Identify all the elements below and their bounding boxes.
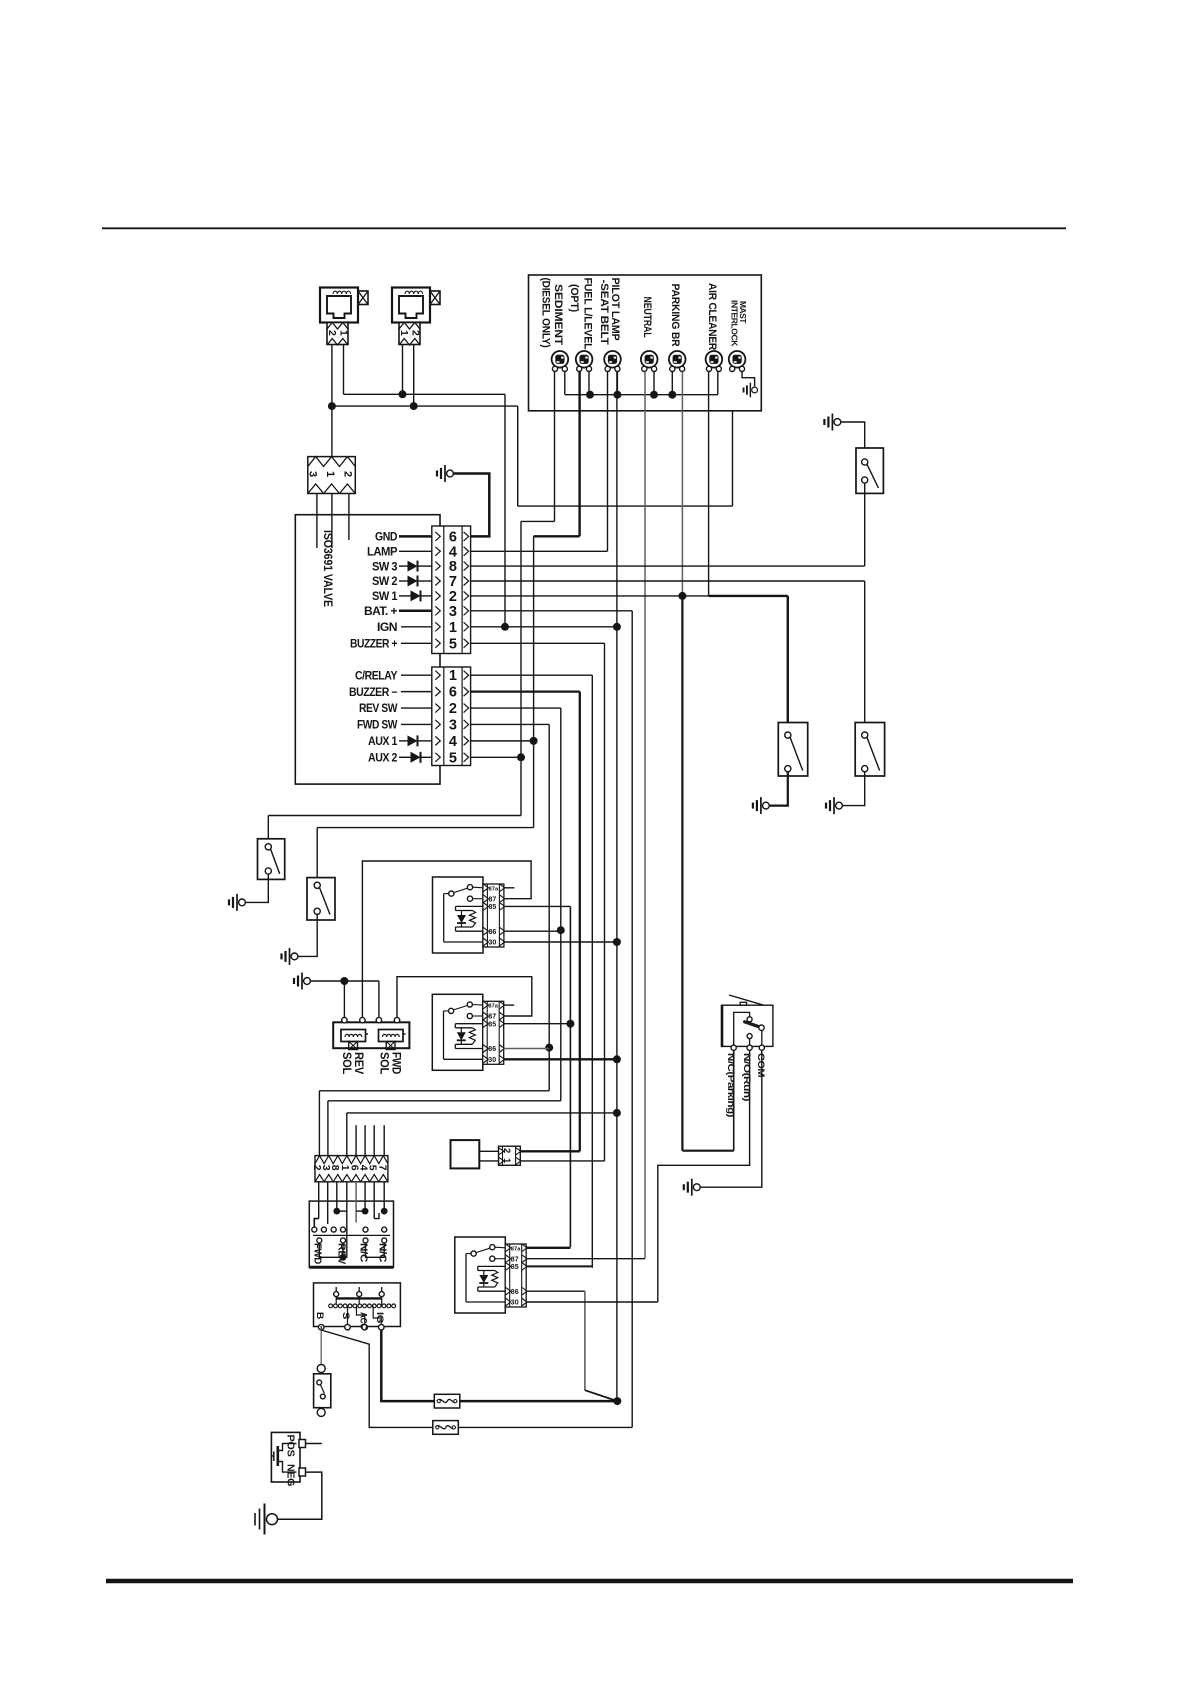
switch1 bottom wire to ground <box>246 874 269 903</box>
3-pin connector <box>308 457 356 494</box>
S drop <box>347 1306 349 1325</box>
svg-text:87a: 87a <box>489 886 499 892</box>
svg-text:REV: REV <box>336 1243 347 1265</box>
B wire down to fuse holder (gray) <box>320 1330 322 1365</box>
direction lever connector <box>315 1156 388 1182</box>
sensor wire AIR CLEANER down <box>708 372 710 597</box>
sensor bus stub PARKING left <box>671 372 673 395</box>
ground under switch2 <box>291 953 298 960</box>
svg-text:1: 1 <box>449 620 457 636</box>
sensor bus stub SEDIMENT right <box>564 372 566 395</box>
battery box <box>271 1432 300 1482</box>
wire solenoid B pin2 down <box>413 345 415 407</box>
mast interlock ground wire <box>742 372 755 387</box>
wire FWD SW to connector <box>401 723 432 725</box>
solenoid B 2-pin connector <box>399 323 420 345</box>
svg-text:SOL: SOL <box>340 1052 352 1074</box>
wire solenoid B pin1 down <box>402 345 404 395</box>
wire ground to switch top <box>841 422 865 448</box>
sensor switch box <box>529 275 762 411</box>
svg-text:85: 85 <box>488 1021 496 1028</box>
sensor connector PARKING BR <box>669 351 686 368</box>
svg-text:NEG: NEG <box>285 1464 297 1486</box>
relay1 85 wire down the 570 line <box>504 905 571 907</box>
wire C/RELAY down to relay3 85 <box>471 674 593 676</box>
wire fuse2 to BAT+ line <box>458 1426 632 1428</box>
wire BUZZER- down to buzzer (thick) <box>471 690 580 692</box>
sensor bus stub AIR CLEANER right <box>717 372 719 395</box>
fuse F1 <box>434 1394 460 1408</box>
ISO3691 valve controller box <box>295 515 440 784</box>
ground under left-bottom switch <box>763 802 770 809</box>
relay R1 connector strip <box>483 884 504 947</box>
svg-text:2: 2 <box>449 589 457 605</box>
FWD-REV loop <box>319 1243 343 1257</box>
relay1 87a stub <box>504 887 515 889</box>
battery NEG terminal <box>299 1468 306 1476</box>
wire solenoid A pin2 down to 3-pin connector <box>331 345 333 457</box>
wire BUZZER+ to connector <box>401 642 432 644</box>
junction REV SW / relay1 86 <box>557 926 565 934</box>
svg-text:87: 87 <box>489 896 497 903</box>
left-bottom switch to ground (thick) <box>769 772 788 806</box>
svg-text:5: 5 <box>449 750 457 766</box>
svg-text:87: 87 <box>488 1014 496 1021</box>
direction switch box <box>309 1201 393 1267</box>
wire mast interlock drop <box>732 411 734 506</box>
microswitch body <box>722 1005 773 1046</box>
svg-text:87a: 87a <box>488 1004 498 1010</box>
FWD SOL coil symbol <box>379 1030 404 1042</box>
svg-text:INTERLOCK: INTERLOCK <box>730 300 739 346</box>
key switch contact row <box>329 1304 333 1308</box>
svg-text:86: 86 <box>489 929 497 936</box>
relay3 86 wire to diagonal <box>526 1290 585 1292</box>
wire LAMP to connector <box>399 550 432 552</box>
svg-text:2: 2 <box>410 330 422 336</box>
svg-text:3: 3 <box>449 717 457 733</box>
wire BUZZER+ down to buzzer <box>471 642 605 644</box>
ground at mast interlock <box>752 387 758 393</box>
junction <box>399 390 407 398</box>
svg-text:7: 7 <box>449 574 457 590</box>
wire SW2 down to switch <box>864 581 866 723</box>
COM wire to ground <box>700 1050 762 1187</box>
svg-text:N/O(Run): N/O(Run) <box>742 1053 752 1101</box>
sensor connector MAST <box>729 351 746 368</box>
svg-text:BUZZER +: BUZZER + <box>350 639 398 651</box>
buzzer body <box>451 1140 480 1168</box>
svg-text:87a: 87a <box>511 1246 521 1252</box>
relay R1 contacts <box>449 891 454 896</box>
relay2 87 loop to FWD SOL <box>397 977 532 1020</box>
relay R3 connector strip <box>505 1244 526 1307</box>
relay R2 contacts <box>449 1008 454 1013</box>
sensor stub PILOT right / seat belt line <box>616 372 618 395</box>
FWD SOL pin 1 <box>376 1017 381 1022</box>
svg-text:SW 1: SW 1 <box>372 591 398 603</box>
sensor bus stub NEUTRAL right <box>653 372 655 395</box>
relay3 87 wire to neutral line <box>526 1258 645 1260</box>
relay2 85 wire <box>504 1023 571 1025</box>
svg-text:7: 7 <box>376 1165 388 1171</box>
ground under right-bottom switch <box>836 802 843 809</box>
svg-text:IGN: IGN <box>377 622 397 634</box>
B drop <box>320 1326 322 1329</box>
svg-text:C/RELAY: C/RELAY <box>355 670 398 682</box>
FWD SOL x-box <box>386 1042 395 1050</box>
svg-text:S: S <box>341 1312 351 1320</box>
solenoid valve coil B body <box>392 288 430 323</box>
IG wire down (thick) <box>381 1330 434 1401</box>
controller connector 1 <box>432 526 471 654</box>
REV/FWD SOL box <box>333 1022 409 1048</box>
relay3 87a wire (thick) up the 570 line <box>526 1247 570 1249</box>
bottom rule <box>106 1579 1073 1584</box>
junction <box>328 402 336 410</box>
svg-text:5: 5 <box>449 636 457 652</box>
pin N/O <box>747 1045 752 1050</box>
relay R3 coil and diode <box>478 1265 506 1267</box>
svg-text:AUX 2: AUX 2 <box>368 752 397 764</box>
thick ground wire to pin6 <box>453 474 489 537</box>
wire REV SW down <box>471 707 561 709</box>
svg-text:2: 2 <box>501 1148 512 1153</box>
wire bus2 down <box>517 406 519 506</box>
wire lever pin1 to IGN line <box>346 1113 348 1156</box>
NC-NC loop <box>366 1243 385 1257</box>
thick wire fuse1 to junction <box>460 1400 618 1403</box>
svg-text:POS: POS <box>285 1435 297 1457</box>
sensor connector SEDIMENT <box>552 351 569 368</box>
svg-text:N/C: N/C <box>377 1243 388 1262</box>
ground for COM <box>693 1184 700 1191</box>
svg-text:(DIESEL ONLY): (DIESEL ONLY) <box>540 278 552 348</box>
svg-text:FWD SW: FWD SW <box>357 720 398 732</box>
sensor connector NEUTRAL <box>641 351 658 368</box>
wire SW3 row to top-right switch <box>471 565 865 567</box>
diode AUX 1 <box>399 740 408 742</box>
IGN line mid vertical <box>616 627 618 1113</box>
svg-text:86: 86 <box>488 1046 496 1053</box>
diode SW 2 <box>399 580 408 582</box>
direction switch terminals <box>317 1238 322 1243</box>
svg-text:(OPT): (OPT) <box>568 284 580 312</box>
junction relay2 85 <box>566 1020 574 1028</box>
relay R3 contacts <box>471 1251 476 1256</box>
sensor bus stub FUEL right <box>588 372 590 395</box>
switch bottom to ground <box>842 772 864 806</box>
sensor wire PARKING down (gray) <box>681 372 683 597</box>
key switch terminals <box>318 1324 324 1330</box>
solenoid A side x-box <box>358 291 368 305</box>
svg-text:SW 2: SW 2 <box>372 576 397 588</box>
junction SW1/parking <box>678 592 686 600</box>
svg-text:FWD: FWD <box>390 1052 402 1074</box>
wire BAT.+ to connector (thick) <box>399 610 432 613</box>
svg-text:6: 6 <box>449 685 457 701</box>
svg-text:8: 8 <box>449 559 457 575</box>
relay R3 outer box <box>455 1237 506 1313</box>
REV SOL pin 2 <box>360 1017 365 1022</box>
direction switch contact circles <box>312 1227 317 1232</box>
diagonal to fuse1 junction <box>585 1390 617 1401</box>
key switch box <box>314 1283 401 1327</box>
relay2 87a stub <box>504 1004 515 1006</box>
thick wire air cleaner to left bottom switch <box>709 595 788 597</box>
fuel/aux1 line down to switch2 <box>533 536 535 827</box>
solenoid ground bus <box>310 980 379 982</box>
wire AUX1 row <box>471 740 534 742</box>
svg-text:2: 2 <box>449 701 457 717</box>
junction lever pin1 / IGN line <box>613 1109 621 1117</box>
wire solenoid A pin1 down <box>343 345 345 395</box>
relay R2 coil and diode <box>455 1023 483 1025</box>
ACC hook <box>357 1306 365 1325</box>
svg-text:N/C: N/C <box>358 1243 369 1262</box>
sensor wire PILOT down <box>607 372 609 552</box>
sensor wire SEAT BELT / IGN line <box>616 395 618 627</box>
IGN line lower part <box>616 1113 618 1401</box>
sensor wire PARKING thick lower part <box>681 597 683 1151</box>
NEG wire to ground <box>278 1472 322 1519</box>
buzzer 2-pin connector <box>499 1146 521 1165</box>
wire SW2 row to lower-right switch <box>471 580 865 582</box>
svg-text:1: 1 <box>338 330 350 336</box>
svg-text:30: 30 <box>511 1300 519 1307</box>
junction <box>340 977 348 985</box>
svg-text:-SEAT BELT: -SEAT BELT <box>598 280 610 346</box>
switch SW (aux2) <box>258 839 285 880</box>
wire REV SW across to lever connector pin3 <box>328 1100 561 1102</box>
wire AUX2 row <box>471 756 521 758</box>
solenoid valve coil A body <box>320 288 358 323</box>
wire switch bottom to SW3 row <box>864 483 866 567</box>
wire LAMP to pilot lamp sensor <box>471 550 608 552</box>
svg-text:BAT. +: BAT. + <box>364 606 398 618</box>
switch SW2 (seat) <box>855 723 884 777</box>
REV SOL x-box <box>349 1042 358 1050</box>
3-pin connector wires into valve box <box>316 494 318 549</box>
solenoid B side x-box <box>430 291 440 305</box>
solenoid A coil marks <box>333 291 351 294</box>
fuse holder <box>314 1374 331 1408</box>
wire IGN row <box>471 626 617 628</box>
relay3 30 wire to N/O run line <box>526 1301 658 1303</box>
ground near controller <box>447 470 454 477</box>
svg-text:GND: GND <box>375 532 397 544</box>
svg-text:4: 4 <box>449 734 457 750</box>
diode SW 3 <box>399 565 408 567</box>
key switch inner contacts <box>335 1287 337 1292</box>
svg-text:REV SW: REV SW <box>359 703 398 715</box>
relay R2 outer box <box>432 994 483 1070</box>
svg-text:FUEL L/LEVEL: FUEL L/LEVEL <box>582 278 594 351</box>
solenoid B coil marks <box>405 291 423 294</box>
solenoid A 2-pin connector <box>327 323 348 345</box>
stub wires above lever connector <box>355 1125 357 1155</box>
wire REV SW to connector <box>401 707 432 709</box>
relay R1 outer box <box>433 877 484 953</box>
svg-text:B: B <box>315 1312 325 1319</box>
wire IGN to connector <box>401 626 432 628</box>
ground for solenoids <box>304 978 311 985</box>
sensor connector PILOT LAMP <box>604 351 621 368</box>
junction AUX1/fuel line <box>530 737 538 745</box>
FWD SOL pin 2 <box>394 1017 399 1022</box>
relay R1 coil and diode <box>456 905 484 907</box>
svg-text:AUX 1: AUX 1 <box>368 736 398 748</box>
pin N/C <box>731 1045 736 1050</box>
svg-text:86: 86 <box>511 1289 519 1296</box>
top rule <box>102 227 1066 229</box>
svg-text:2: 2 <box>342 471 354 477</box>
svg-text:SOL: SOL <box>378 1052 390 1074</box>
svg-text:3: 3 <box>307 471 319 477</box>
ground at top-right switch <box>834 419 841 426</box>
switch SW3 (mast) <box>856 448 883 493</box>
relay1 30 wire to IGN line <box>504 941 617 943</box>
svg-text:4: 4 <box>449 544 457 560</box>
svg-text:1: 1 <box>398 330 410 336</box>
relay1 87 loop to REV SOL <box>362 861 531 1020</box>
junction relay2 30 / IGN <box>613 1055 621 1063</box>
svg-text:REV: REV <box>352 1052 364 1075</box>
sensor connector AIR CLEANER <box>706 351 723 368</box>
svg-text:3: 3 <box>449 604 457 620</box>
svg-text:1: 1 <box>324 471 336 477</box>
junction AUX2/sediment line <box>517 753 525 761</box>
microswitch lever <box>729 995 765 1005</box>
POS wire <box>306 1443 322 1445</box>
REV SOL coil symbol <box>341 1030 366 1042</box>
relay1 86 wire to REV SW line <box>504 930 561 932</box>
N/O run wire to relay3 30 <box>658 1050 750 1302</box>
direction switch jumpers <box>314 1219 318 1227</box>
sensor connector FUEL L/LEVEL <box>576 351 593 368</box>
svg-text:LAMP: LAMP <box>367 547 398 559</box>
junction fuse1/IGN feed <box>613 1397 621 1405</box>
junction relay1 30 / IGN <box>613 938 621 946</box>
svg-text:6: 6 <box>449 529 457 545</box>
diode AUX 2 <box>399 756 411 758</box>
svg-text:87: 87 <box>511 1256 519 1263</box>
wire FWD SW across to lever connector pin2 <box>319 1090 549 1092</box>
fuse F2 <box>433 1421 459 1435</box>
relay R2 connector strip <box>483 1001 504 1064</box>
battery POS terminal <box>299 1440 306 1448</box>
svg-text:2: 2 <box>326 330 338 336</box>
svg-text:85: 85 <box>511 1264 519 1271</box>
sensor wire NEUTRAL down (gray) <box>644 372 646 1259</box>
junction IGN/solenoid bus <box>501 623 509 631</box>
wire SW1 row <box>471 595 709 597</box>
wire across to mast interlock <box>518 505 733 507</box>
svg-text:1: 1 <box>449 668 457 684</box>
svg-text:ISO3691 VALVE: ISO3691 VALVE <box>321 530 335 607</box>
wire FWD SW down <box>471 723 550 725</box>
wire BUZZER- to connector <box>401 691 432 693</box>
wire C/RELAY to connector <box>401 674 432 676</box>
wire bus1 down to IGN <box>504 394 506 627</box>
diode SW 1 <box>399 595 411 597</box>
N/C parking wire (thick) <box>733 1050 735 1150</box>
sensor wire SEDIMENT down <box>554 372 556 522</box>
wires from connector into direction switch <box>318 1182 320 1219</box>
junction IGN/seat belt line <box>613 623 621 631</box>
wire GND to connector (thick) <box>399 535 432 538</box>
switch2 bottom wire to ground <box>298 914 317 957</box>
svg-text:85: 85 <box>489 904 497 911</box>
battery cell symbol <box>276 1446 279 1466</box>
svg-text:30: 30 <box>488 1057 496 1064</box>
svg-text:SW 3: SW 3 <box>372 561 397 573</box>
IG hook <box>373 1306 381 1325</box>
svg-text:FWD: FWD <box>312 1243 323 1264</box>
sediment/aux2 line down to switch1 <box>520 521 522 815</box>
switch SW (aux1) <box>307 878 335 920</box>
buzzer wires to connector <box>479 1150 498 1152</box>
ground under switch1 <box>239 899 246 906</box>
junction FWD SW / relay2 86 <box>545 1044 553 1052</box>
solenoid bus 1 <box>344 393 506 395</box>
sensor wire FUEL down (thick) <box>578 372 580 537</box>
sensor bus <box>565 394 718 396</box>
B wire diagonal to fuse2 <box>321 1330 433 1427</box>
svg-text:PARKING BR: PARKING BR <box>669 284 681 348</box>
svg-text:NEUTRAL: NEUTRAL <box>641 297 653 339</box>
controller connector 2 <box>432 667 471 766</box>
solenoid bus 2 <box>332 405 518 407</box>
microswitch contacts <box>734 1012 750 1045</box>
wire BAT+ down to fuse 2 line <box>471 610 633 612</box>
REV SOL pin 1 <box>342 1017 347 1022</box>
relay2 30 wire (thick) to IGN line <box>504 1058 617 1060</box>
svg-text:AIR CLEANER: AIR CLEANER <box>706 283 718 351</box>
junction <box>410 402 418 410</box>
battery ground <box>267 1514 278 1525</box>
svg-text:BUZZER −: BUZZER − <box>349 687 398 699</box>
relay3 85 wire (thick) <box>526 1265 592 1267</box>
switch SW1 (brake) <box>778 723 807 777</box>
svg-text:SEDIMENT: SEDIMENT <box>552 284 564 346</box>
direction switch bar <box>313 1234 390 1236</box>
pin COM <box>759 1045 764 1050</box>
relay2 86 wire (gray) <box>504 1048 550 1050</box>
svg-text:30: 30 <box>489 940 497 947</box>
